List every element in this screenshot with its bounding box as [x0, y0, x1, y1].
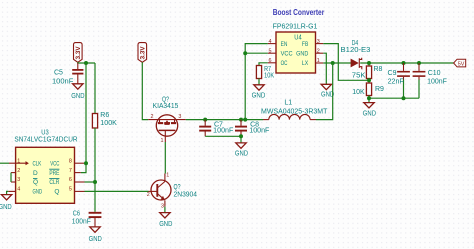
svg-text:100nF: 100nF: [427, 79, 447, 86]
pin 5 Q: [54, 187, 84, 196]
svg-text:Q?: Q?: [174, 184, 181, 191]
pin 3 FB: [302, 39, 323, 48]
svg-text:R8: R8: [374, 66, 383, 73]
svg-text:B120-E3: B120-E3: [341, 47, 371, 54]
capacitor C6: [72, 211, 102, 227]
wire bottom rail caps: [369, 97, 419, 99]
svg-text:LX: LX: [302, 60, 309, 67]
svg-text:VCC: VCC: [50, 160, 59, 167]
pin 4 EN: [268, 39, 288, 48]
svg-text:10K: 10K: [264, 72, 274, 79]
pin 1 LX: [302, 58, 323, 67]
svg-text:1: 1: [17, 158, 20, 164]
svg-text:MWSA04025-3R3MT: MWSA04025-3R3MT: [261, 109, 328, 116]
diode D4 B120-E3: [341, 40, 371, 69]
svg-text:C6: C6: [73, 211, 80, 218]
svg-text:75K: 75K: [352, 73, 366, 80]
svg-text:4: 4: [269, 39, 272, 45]
resistor R6: [92, 63, 117, 212]
svg-text:7: 7: [69, 168, 72, 174]
ground under C6: [89, 227, 102, 243]
svg-text:C5: C5: [54, 70, 63, 77]
wire CLK input from edge: [0, 162, 9, 164]
junction VCC branch: [84, 61, 88, 65]
svg-text:R9: R9: [375, 86, 384, 93]
svg-text:GND: GND: [296, 50, 308, 57]
svg-text:8: 8: [69, 158, 72, 164]
svg-text:SN74LVC1G74DCUR: SN74LVC1G74DCUR: [14, 137, 77, 144]
svg-text:2N3904: 2N3904: [174, 191, 198, 198]
junction C8 bottom: [239, 134, 243, 138]
ground under 2N3904: [159, 213, 172, 228]
capacitor C5: [52, 63, 83, 86]
junction CLR pin: [93, 180, 97, 184]
op-amp U3 flip-flop SN74LVC1G74DCUR: [14, 129, 77, 203]
resistor R8: [352, 63, 383, 83]
ground under U4 pin2: [321, 84, 334, 98]
transistor Q7 2N3904 NPN: [147, 173, 197, 210]
pin 1 CLK: [9, 158, 42, 167]
svg-text:3: 3: [17, 177, 20, 183]
junction C10 top: [417, 61, 421, 65]
wire diode to 5V: [360, 62, 453, 64]
svg-text:U4: U4: [294, 34, 301, 41]
svg-text:FB: FB: [302, 41, 308, 48]
svg-text:2: 2: [147, 192, 150, 198]
svg-text:GND: GND: [363, 111, 376, 118]
svg-text:1: 1: [166, 173, 169, 179]
wire FB to divider: [323, 44, 369, 81]
wire Q7 gate to Q7 collector: [164, 142, 166, 174]
power flag 3.3V #PWR2: [138, 43, 147, 63]
svg-text:GND: GND: [89, 236, 102, 243]
svg-text:2: 2: [151, 114, 154, 120]
capacitor C7: [199, 120, 233, 137]
svg-text:3: 3: [178, 114, 181, 120]
pin 4 GND: [8, 187, 42, 196]
wire U4 GND pin to ground: [323, 53, 326, 84]
svg-text:2: 2: [17, 168, 20, 174]
pin 3 Qbar: [11, 177, 38, 186]
pin 6 OC: [268, 58, 288, 67]
svg-text:6: 6: [269, 58, 272, 64]
svg-text:Q: Q: [33, 179, 38, 186]
junction C8: [239, 118, 243, 122]
svg-text:GND: GND: [0, 204, 12, 211]
pin 2 D: [11, 168, 38, 177]
pin 2 GND: [296, 48, 323, 57]
svg-text:6: 6: [69, 177, 72, 183]
pin 8 VCC: [50, 158, 85, 167]
text Boost Converter: [273, 8, 325, 17]
svg-text:GND: GND: [159, 221, 172, 228]
svg-text:4: 4: [17, 187, 20, 193]
svg-text:100nF: 100nF: [52, 79, 73, 86]
svg-text:2: 2: [317, 48, 320, 54]
wire inductor to LX: [316, 63, 333, 120]
junction VCC EN: [243, 51, 247, 55]
resistor R9: [352, 83, 384, 103]
wire 3.3V to Q7 source: [142, 62, 148, 119]
svg-text:5V: 5V: [458, 62, 465, 68]
svg-text:1: 1: [317, 58, 320, 64]
junction R8 top: [367, 61, 371, 65]
resistor R7: [256, 66, 274, 85]
ground under U3 pin4: [0, 195, 12, 211]
svg-text:100nF: 100nF: [249, 128, 269, 135]
wire VCC: [245, 52, 268, 54]
svg-text:U3: U3: [41, 129, 48, 136]
wire Q to Q7 base: [85, 190, 149, 192]
svg-text:22nF: 22nF: [388, 79, 404, 86]
capacitor C8: [235, 120, 269, 143]
wire VCC to PRE: [81, 163, 86, 172]
svg-text:KIA3415: KIA3415: [153, 103, 179, 110]
svg-text:CLR: CLR: [49, 179, 59, 186]
svg-text:3.3V: 3.3V: [76, 46, 82, 59]
wire C7 bottom to C8 bottom: [205, 135, 241, 137]
svg-text:GND: GND: [71, 93, 84, 100]
svg-text:3: 3: [317, 39, 320, 45]
power flag 5V: [454, 59, 466, 67]
svg-text:100nF: 100nF: [72, 218, 91, 225]
pin 5 VCC: [268, 48, 293, 57]
capacitor C9: [388, 63, 410, 98]
svg-text:10K: 10K: [352, 89, 365, 96]
junction pin8 VCC: [84, 161, 88, 165]
junction U4 supply branch: [243, 118, 247, 122]
svg-text:GND: GND: [235, 151, 248, 158]
ground under R9: [363, 103, 376, 118]
wire OC to R7: [259, 63, 268, 66]
ground under R7: [252, 85, 266, 100]
op-amp U4 FP6291LR-G1: [273, 24, 318, 73]
capacitor C10: [413, 63, 447, 98]
ground under C5: [71, 84, 84, 100]
transistor Q7 KIA3415 PMOS: [148, 96, 186, 144]
svg-text:FP6291LR-G1: FP6291LR-G1: [273, 24, 318, 31]
ground under C7 C8: [235, 143, 248, 158]
svg-text:1: 1: [161, 138, 164, 144]
junction LX inductor: [331, 61, 335, 65]
wire LX to diode: [323, 62, 351, 64]
svg-text:OC: OC: [281, 60, 288, 67]
pin 7 PRE: [49, 168, 81, 177]
svg-text:3.3V: 3.3V: [140, 46, 146, 59]
svg-text:L1: L1: [284, 100, 292, 107]
svg-text:GND: GND: [33, 189, 43, 196]
wire 3.3V switched rail: [186, 119, 263, 121]
svg-text:VCC: VCC: [281, 50, 293, 57]
svg-text:GND: GND: [252, 92, 266, 99]
svg-text:3: 3: [161, 204, 164, 210]
wire pin4 to ground: [7, 191, 9, 194]
svg-text:Boost Converter: Boost Converter: [273, 8, 325, 17]
svg-text:EN: EN: [281, 41, 288, 48]
junction R9 bottom: [367, 96, 371, 100]
svg-text:5: 5: [269, 48, 272, 54]
wire CLR to R6 line: [85, 181, 96, 183]
junction C9 top: [402, 61, 406, 65]
pin 6 CLR: [49, 177, 84, 186]
junction FB divider: [367, 78, 371, 82]
svg-text:C9: C9: [388, 70, 397, 77]
svg-text:100K: 100K: [100, 120, 117, 127]
svg-text:Q: Q: [54, 189, 59, 196]
wire emitter to ground: [164, 207, 166, 213]
inductor L1: [261, 100, 328, 120]
svg-text:PRE: PRE: [49, 170, 59, 177]
svg-text:D: D: [33, 170, 38, 177]
junction C9 bottom: [402, 96, 406, 100]
svg-text:5: 5: [69, 187, 72, 193]
power flag 3.3V #PWR1: [73, 43, 82, 63]
svg-text:R6: R6: [100, 112, 109, 119]
wire EN VCC to rail: [245, 44, 268, 120]
svg-text:C10: C10: [428, 70, 441, 77]
svg-text:100nF: 100nF: [213, 128, 233, 135]
junction C7: [203, 118, 207, 122]
wire VCC drop: [85, 63, 87, 163]
wire 3.3V rail to R6 line: [78, 61, 95, 64]
svg-text:CLK: CLK: [33, 160, 42, 167]
wire D to Qbar loop: [10, 173, 12, 182]
